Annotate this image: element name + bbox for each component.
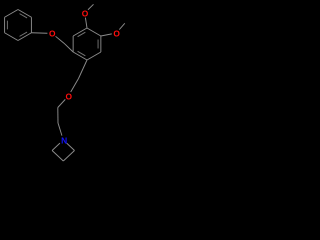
ring1 double bond inner C1-C2: [20, 14, 28, 18]
bond C13-O4: [71, 79, 79, 93]
bond O4-C14: [58, 99, 65, 107]
ring1 bond C1-C2: [18, 10, 31, 18]
svg-text:O: O: [65, 91, 72, 101]
ring2 double bond inner C7-C8: [78, 32, 86, 36]
ring2 bond C10-C11: [87, 52, 101, 60]
ring2 bond C12-C7: [87, 28, 101, 36]
bond C7-O2: [85, 18, 87, 28]
ring1 bond C3-C4: [18, 33, 31, 41]
bond O2-CH3: [88, 4, 94, 9]
ring1 bond C6-C1: [5, 10, 18, 18]
ring2 bond C8-C9: [72, 36, 74, 52]
bond C15-N1: [58, 123, 62, 136]
svg-text:O: O: [82, 8, 89, 18]
ring2 bond C7-C8: [73, 28, 87, 36]
azetidine bond C16-C17: [63, 151, 74, 162]
ring1 bond C5-C6: [4, 17, 6, 33]
svg-text:N: N: [61, 135, 67, 145]
ring1 bond C2-C3: [30, 17, 32, 33]
ring1 double bond inner C5-C6: [6, 21, 8, 30]
bond C12-O3: [101, 34, 112, 36]
bond C7-C9: [64, 43, 73, 52]
svg-text:O: O: [113, 28, 120, 38]
bond O3-CH3: [119, 23, 124, 29]
ring2 double bond inner C11-C12: [97, 40, 99, 49]
azetidine bond C18-N1: [52, 143, 60, 150]
azetidine bond C17-C18: [52, 151, 63, 162]
bond C14-C15: [57, 108, 59, 124]
ring1 double bond inner C3-C4: [20, 32, 28, 36]
ring2 bond C9-C10: [73, 52, 87, 60]
bond C3-O1: [31, 32, 47, 35]
azetidine bond N1-C16: [67, 143, 75, 150]
svg-text:O: O: [49, 29, 56, 39]
bond C10-C13: [79, 60, 88, 79]
bond O1-C7: [56, 36, 64, 43]
ring1 bond C4-C5: [5, 33, 18, 41]
ring2 double bond inner C9-C10: [78, 51, 86, 55]
ring2 bond C11-C12: [100, 36, 102, 52]
